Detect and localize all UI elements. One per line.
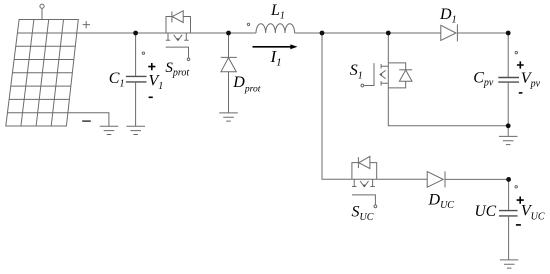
wire node A to node B <box>322 32 388 34</box>
node E junction (UC top) <box>506 177 511 182</box>
wire Cpv top <box>507 33 509 78</box>
minus label Vuc <box>516 224 521 226</box>
node C1 top junction <box>133 31 138 36</box>
ground (panel) <box>100 126 119 134</box>
wire node A down to lower rail <box>322 33 352 179</box>
measurement port L1 <box>247 23 249 25</box>
transistor S_UC <box>352 156 377 207</box>
wire UC top <box>508 179 510 210</box>
wire S_UC to D_UC <box>377 178 428 180</box>
wire panel plus to node <box>77 32 136 34</box>
minus label V1 <box>149 96 153 98</box>
wire Sprot to Dprot node <box>191 32 229 34</box>
wire D_UC to node E <box>445 178 509 180</box>
diode D_UC <box>427 171 445 187</box>
capacitor UC <box>499 211 518 216</box>
capacitor C_pv <box>498 78 519 83</box>
node D_prot junction <box>226 31 231 36</box>
ground (C1) <box>126 126 145 134</box>
plus label PV <box>83 21 90 28</box>
wire rail C1 to Sprot <box>136 32 166 34</box>
wire C1 top <box>135 33 137 76</box>
wire node D to ground <box>507 126 509 137</box>
wire node B to D1 <box>388 32 441 34</box>
PV panel <box>6 20 79 127</box>
wire L1 to node A <box>295 32 322 34</box>
wire D1 to node C <box>457 32 508 34</box>
plus label Vuc <box>517 197 524 204</box>
wire Cpv bottom <box>507 82 509 126</box>
diode D1 <box>441 24 458 41</box>
plus label V1 <box>148 63 155 70</box>
ground (UC) <box>500 260 518 268</box>
wire Dprot top <box>228 33 230 57</box>
ground (D_prot) <box>219 113 238 121</box>
wire Dprot node to L1 <box>229 32 257 34</box>
inductor L1 <box>256 24 295 33</box>
PV panel top terminal <box>40 4 44 20</box>
node A junction <box>320 31 325 36</box>
capacitor C1 <box>126 76 147 82</box>
transistor S1 <box>361 63 412 88</box>
measurement port UC <box>515 186 517 188</box>
current arrow I1 <box>253 44 298 49</box>
ground (C_pv) <box>499 136 518 144</box>
svg-text:UC: UC <box>475 203 497 220</box>
node D junction (Cpv bottom) <box>506 123 511 128</box>
wire C1 bottom <box>135 82 137 126</box>
transistor S_prot <box>166 11 191 61</box>
minus label Vpv <box>519 92 523 94</box>
wire Dprot bottom <box>228 72 230 113</box>
minus label PV <box>82 120 91 122</box>
plus label Vpv <box>517 61 524 68</box>
node C junction <box>506 31 511 36</box>
wire UC bottom <box>508 216 510 260</box>
measurement port Cpv <box>515 51 517 53</box>
diode D_prot <box>221 57 237 71</box>
wire S1 bottom to Cpv bottom node <box>388 88 508 126</box>
wire panel minus to ground <box>68 113 109 127</box>
node B junction <box>386 31 391 36</box>
wire node B down to S1 <box>387 33 389 63</box>
measurement port V1 <box>142 52 144 54</box>
